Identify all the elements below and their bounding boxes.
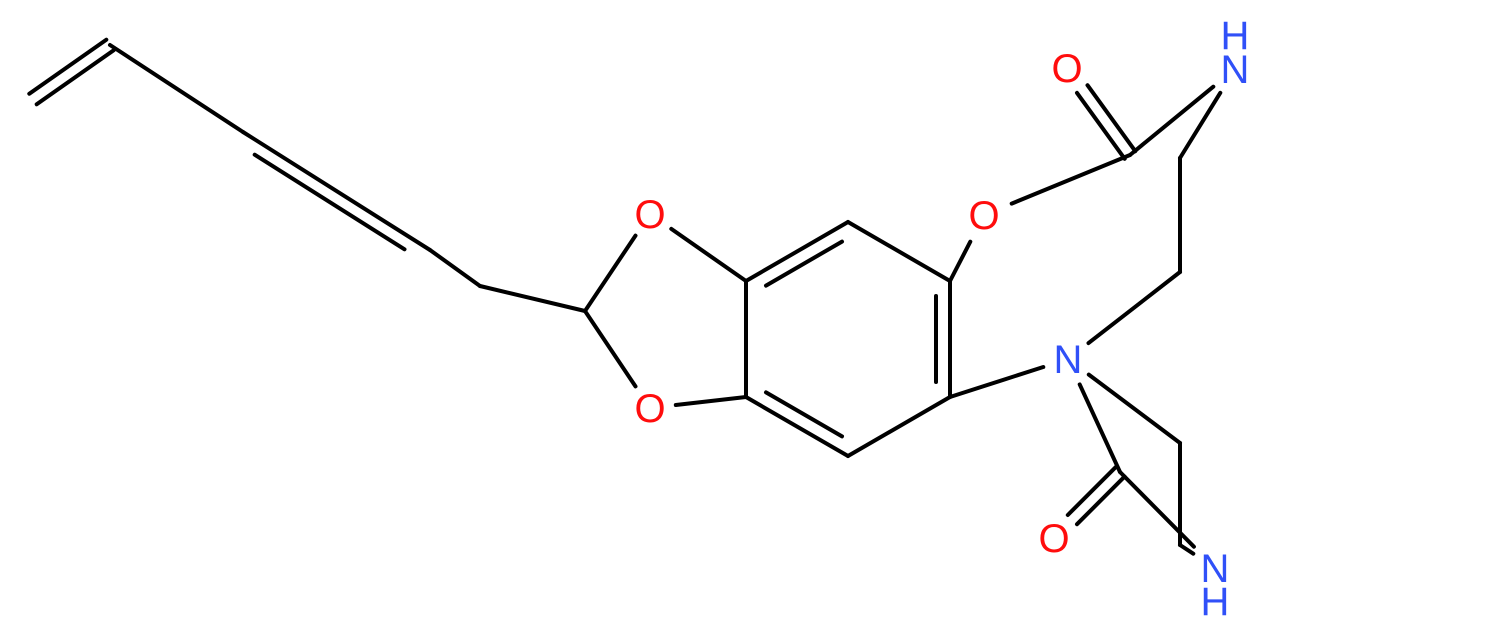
bond C carbamate-NH xyxy=(1130,87,1213,155)
bond CH2-CH2 (vertical lower) xyxy=(1178,443,1182,545)
svg-text:N: N xyxy=(1221,48,1250,92)
svg-text:O: O xyxy=(968,194,999,238)
svg-text:O: O xyxy=(634,193,665,237)
benzene ring edge BR-B xyxy=(848,397,950,456)
bond C carbonyl-N xyxy=(1080,384,1120,472)
aromatic inner line top-left xyxy=(766,242,842,286)
terminal C=C double bond xyxy=(29,40,113,105)
svg-text:O: O xyxy=(634,387,665,431)
benzene ring edge TR-BR xyxy=(948,281,952,397)
bond N-aryl xyxy=(950,367,1043,397)
bond C acetal-O2 xyxy=(585,311,636,386)
chain bond to acetal C xyxy=(480,286,585,311)
bond O1-C acetal xyxy=(585,236,636,311)
chain bond xyxy=(430,250,480,286)
svg-text:H: H xyxy=(1201,580,1230,624)
bond N-CH2 (lower) xyxy=(1089,375,1180,443)
benzene ring edge BL-TL xyxy=(744,281,748,397)
aromatic inner line bottom-left xyxy=(766,392,842,436)
bond CH2-CH2 (vertical) xyxy=(1178,158,1182,272)
bond TL-O1 (aryl ether) xyxy=(671,229,746,281)
svg-text:N: N xyxy=(1054,338,1083,382)
benzene ring edge T-TR xyxy=(848,222,950,281)
chain C=C double bond xyxy=(243,132,430,250)
svg-text:O: O xyxy=(1038,517,1069,561)
bond CH2-NH (lower) xyxy=(1180,545,1193,554)
bond O2-BL (aryl ether) xyxy=(676,397,746,405)
bond CH2-N xyxy=(1089,272,1181,343)
bond TR-O3 xyxy=(950,242,970,281)
C=O double bond (bottom) xyxy=(1068,467,1125,524)
benzene ring edge TL-T xyxy=(746,222,848,281)
svg-text:O: O xyxy=(1051,47,1082,91)
C=O double bond (top) xyxy=(1077,85,1135,159)
benzene ring edge B-BL xyxy=(746,397,848,456)
bond O3-C carbamate xyxy=(1012,155,1130,204)
aromatic inner line right xyxy=(934,296,938,382)
bond NH-CH2 xyxy=(1180,93,1220,158)
chain bond C2-C3 xyxy=(110,45,243,132)
bond NH-C carbonyl (lower) xyxy=(1120,472,1194,547)
